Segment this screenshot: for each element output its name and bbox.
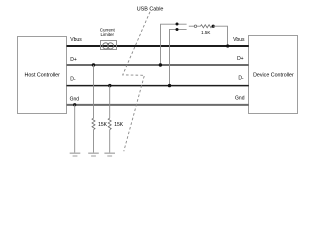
- svg-text:Gnd: Gnd: [235, 95, 245, 101]
- node on Vbus (pull-up): [226, 44, 229, 47]
- device controller box: [249, 36, 298, 114]
- current limiter box: [101, 41, 117, 50]
- wire D- to R2: [109, 86, 111, 119]
- wire resistor to Vbus: [213, 26, 227, 46]
- pull-up throw wire to D+: [161, 24, 187, 65]
- svg-text:Device Controller: Device Controller: [253, 72, 294, 78]
- wire switch to resistor: [197, 25, 201, 27]
- svg-text:D-: D-: [238, 75, 244, 81]
- svg-text:D+: D+: [70, 57, 77, 63]
- node on D+ (15K R1): [92, 63, 95, 66]
- wire R1 to ground: [93, 130, 95, 153]
- wire R2 to ground: [109, 130, 111, 153]
- current limiter symbol (two overlapping circles): [103, 43, 109, 49]
- wire Gnd to ground: [74, 105, 76, 153]
- host controller box: [18, 37, 67, 114]
- USB cable dashed boundary line: [123, 12, 150, 151]
- node after resistor: [212, 25, 215, 28]
- svg-text:15K: 15K: [98, 122, 108, 128]
- node on D+ (pull-up): [159, 63, 162, 66]
- pull-up throw wire to D-: [170, 29, 187, 85]
- node on D- (pull-up): [168, 84, 171, 87]
- ground symbol 2: [88, 153, 99, 156]
- node on Gnd (ground drop): [73, 103, 76, 106]
- svg-text:USB Cable: USB Cable: [137, 6, 164, 12]
- ground symbol 1: [70, 153, 81, 156]
- wire D+ to R1: [93, 65, 95, 118]
- svg-text:Limiter: Limiter: [101, 32, 115, 37]
- svg-text:Vbus: Vbus: [233, 37, 245, 43]
- svg-text:D-: D-: [70, 77, 76, 83]
- svg-text:15K: 15K: [114, 122, 124, 128]
- node on D- (15K R2): [108, 84, 111, 87]
- switch pole contact circle: [194, 25, 196, 27]
- wire D+: [67, 64, 249, 66]
- wire D-: [67, 85, 249, 87]
- resistor 1.5K: [201, 25, 212, 28]
- wire Gnd: [67, 104, 249, 106]
- svg-text:1.5K: 1.5K: [201, 30, 210, 35]
- contact dot upper throw: [176, 23, 179, 26]
- svg-text:Vbus: Vbus: [70, 37, 82, 43]
- resistor R2 15K: [108, 118, 111, 129]
- switch pole wire: [189, 25, 194, 27]
- wire Vbus: [67, 45, 249, 47]
- svg-text:Host Controller: Host Controller: [25, 73, 61, 79]
- resistor R1 15K: [92, 118, 95, 129]
- svg-text:Gnd: Gnd: [70, 97, 80, 103]
- contact dot lower throw: [176, 28, 179, 31]
- ground symbol 3: [104, 153, 115, 156]
- svg-text:D+: D+: [237, 56, 244, 62]
